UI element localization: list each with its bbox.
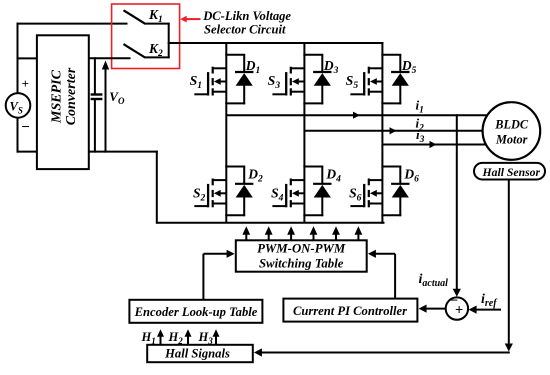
wire: leg1 drain riser [225,42,227,55]
wire: S1 source-diode bottom branch [225,102,245,104]
svg-text:+: + [22,76,29,91]
wire: S3 source-diode bottom branch [303,102,323,104]
block: PWM-ON-PWM Switching Table box [236,240,367,271]
wire: S3 drain-diode top branch [303,54,323,56]
switch K1 right lead [144,23,170,25]
switch K2 blade [124,44,146,57]
wire: summing junction to PI controller [423,308,446,310]
wire: leg2 drain riser [303,42,305,55]
diode D6 (freewheel) [399,167,401,185]
wire: MSEPIC upper output to switch K2 [89,57,131,59]
Vo measurement arrow [105,67,107,153]
svg-text:MSEPICConverter: MSEPICConverter [50,67,80,125]
svg-text:Hall Sensor: Hall Sensor [482,166,541,179]
wire: leg3 drain riser [381,42,383,55]
block: Encoder Look-up Table box [129,300,262,323]
svg-text:Current PI Controller: Current PI Controller [293,304,407,318]
wire: capacitor branch upper [94,57,96,94]
diode D5 (freewheel) [399,55,401,73]
svg-text:BLDC: BLDC [494,118,529,132]
svg-text:Switching Table: Switching Table [259,256,344,270]
transistor S3 (MOSFET) [303,54,305,105]
wire: Vs rail to MSEPIC upper input [17,57,38,59]
wire: PI controller to switching table [394,254,396,299]
diode D1 (freewheel) [243,55,245,73]
transistor S4 (MOSFET) [303,166,305,217]
wire: S6 drain-diode top branch [381,166,401,168]
svg-text:PWM-ON-PWM: PWM-ON-PWM [257,242,346,256]
hall signal H2 arrow [187,335,189,346]
wire: leg2 source drop to negative rail [303,215,305,223]
wire: S5 drain-diode top branch [381,54,401,56]
wire: S4 drain-diode top branch [303,166,323,168]
wire: leg1 source drop to negative rail [225,215,227,223]
selector circuit red outline box [112,4,180,69]
gate drive arrow 1 from switching table [245,232,247,240]
block: Current PI Controller box [283,299,417,322]
wire: lower output drop to negative rail [156,151,158,224]
wire: junction of K1 and K2 outputs [168,23,170,59]
diode D3 (freewheel) [321,55,323,73]
wire: phase current i3 to motor [382,144,489,146]
gate drive arrow 2 from switching table [268,232,270,240]
gate drive arrow 4 from switching table [313,232,315,240]
wire: phase current i1 to motor [226,114,490,116]
wire: phase current i2 to motor [304,130,490,132]
svg-text:+: + [455,302,463,318]
sensor: Hall Sensor stadium outline [474,163,545,180]
transistor S5 (MOSFET) [381,54,383,105]
svg-text:−: − [21,120,30,136]
diode D2 (freewheel) [243,167,245,185]
transistor S1 (MOSFET) [225,54,227,105]
wire: leg3 midpoint link [381,103,383,166]
wire: Vs rail to MSEPIC lower input [17,151,38,153]
svg-text:Motor: Motor [495,133,528,147]
svg-text:DC-Likn VoltageSelector Circui: DC-Likn VoltageSelector Circuit [202,9,291,37]
diode D4 (freewheel) [321,167,323,185]
wire: S5 source-diode bottom branch [381,102,401,104]
wire: encoder table to switching table [202,254,204,300]
motor M1: BLDC Motor circle [483,102,541,160]
gate drive arrow 6 from switching table [357,232,359,240]
gate drive arrow 5 from switching table [335,232,337,240]
wire: inverter positive rail from selector [168,42,384,44]
gate drive arrow 3 from switching table [290,232,292,240]
wire: leg1 midpoint link [225,103,227,166]
capacitor C1 plates [91,93,103,95]
summing junction node [446,297,468,319]
transistor S6 (MOSFET) [381,166,383,217]
wire: hall sensor feedback drop [508,180,510,347]
wire: i_actual feedback from i1 line [456,114,458,292]
wire: S2 drain-diode top branch [225,166,245,168]
converter block U1: MSEPIC Converter box [37,35,89,169]
wire: S2 source-diode bottom branch [225,214,245,216]
svg-text:Encoder Look-up Table: Encoder Look-up Table [134,305,258,319]
svg-text:Hall Signals: Hall Signals [164,347,230,361]
switch K1 blade [124,10,146,23]
wire: leg3 source drop to negative rail [381,215,383,224]
wire: S6 source-diode bottom branch [381,214,401,216]
wire: inverter negative rail [157,222,385,224]
block: Hall Signals box [147,345,253,362]
DC source Vs circle symbol [6,93,31,118]
red pointer arrow to selector box [185,18,201,20]
wire: hall feedback run to Hall Signals box [257,352,510,354]
wire: leg2 midpoint link [303,103,305,166]
wire: S1 drain-diode top branch [225,54,245,56]
hall signal H1 arrow [160,335,162,346]
wire: capacitor branch lower [94,99,96,153]
wire: left rail from top wire to Vs + [17,23,19,94]
switch K2 right lead [144,56,170,58]
hall signal H3 arrow [215,335,217,346]
wire: S4 source-diode bottom branch [303,214,323,216]
wire: left rail from Vs - to bottom stub [17,117,19,152]
wire: top wire from Vs rail to switch K1 [17,23,128,25]
wire: i_ref input [472,309,501,311]
wire: MSEPIC lower output run [89,151,158,153]
transistor S2 (MOSFET) [225,166,227,217]
